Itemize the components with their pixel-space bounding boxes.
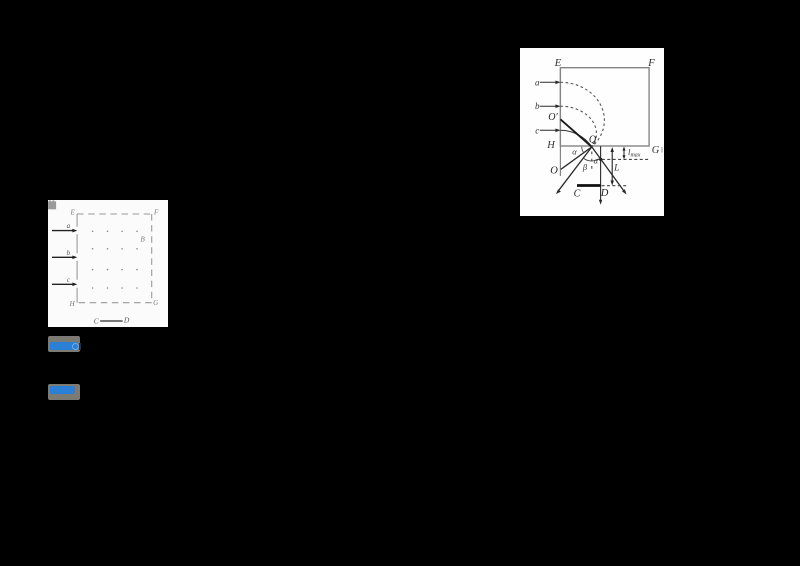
svg-text:α: α — [572, 146, 577, 156]
thick plate CD — [577, 184, 601, 187]
svg-text:G: G — [153, 298, 158, 306]
l_max dimension double arrow — [623, 148, 625, 157]
svg-text:c: c — [535, 125, 539, 135]
svg-text:O′: O′ — [548, 112, 558, 123]
svg-text:c: c — [67, 275, 71, 283]
dashed field boundary EFGH: top edge — [77, 213, 152, 215]
radius line QO — [561, 147, 592, 169]
dashed field boundary: bottom edge — [77, 301, 152, 303]
tick right of G — [661, 147, 663, 152]
svg-text:F: F — [153, 208, 159, 216]
svg-text:E: E — [69, 208, 75, 216]
answer button 1 (gray box with blue label) — [48, 336, 81, 352]
junction dot on vertical line — [599, 158, 602, 161]
svg-text:H: H — [546, 140, 556, 151]
dashed vertical below Q — [591, 151, 593, 172]
svg-text:α: α — [594, 155, 599, 165]
svg-text:E: E — [554, 57, 562, 69]
dashed trajectory arc of particle a — [560, 82, 604, 147]
exit ray of c (lower-right arrow) — [592, 147, 624, 191]
solid trajectory arc of particle c — [560, 130, 591, 147]
svg-text:G: G — [652, 145, 660, 156]
dashed trajectory arc of particle b — [560, 106, 596, 147]
small gray icon blob — [48, 201, 56, 209]
svg-text:D: D — [123, 315, 130, 324]
dashed field boundary: right edge — [151, 214, 153, 303]
svg-text:H: H — [68, 299, 75, 307]
svg-text:a: a — [67, 222, 71, 230]
svg-text:C: C — [574, 188, 581, 199]
svg-text:Q: Q — [589, 134, 597, 145]
right figure panel (detailed trajectory diagram) — [520, 48, 664, 216]
answer button 2 (gray box with blue label) — [48, 384, 80, 400]
svg-text:O: O — [550, 166, 558, 177]
angle alpha arc at H side — [582, 147, 584, 153]
angle beta/alpha arc below Q — [583, 158, 600, 161]
svg-text:C: C — [93, 316, 99, 325]
svg-text:b: b — [67, 249, 71, 257]
vertical exit line through D with arrow — [600, 146, 602, 200]
field rectangle EFGH — [560, 68, 649, 146]
svg-text:D: D — [600, 188, 609, 199]
svg-text:a: a — [535, 77, 540, 87]
svg-text:B: B — [140, 235, 145, 243]
left edge: solid segments broken at particle entries — [76, 214, 78, 303]
line EH extended below H — [559, 68, 561, 176]
svg-text:b: b — [535, 101, 540, 111]
svg-text:F: F — [647, 57, 655, 69]
svg-text:β: β — [582, 162, 588, 172]
dashed horizontal at l_max depth — [596, 158, 649, 160]
svg-text:L: L — [613, 163, 619, 173]
dashed horizontal at D depth — [602, 185, 627, 187]
left figure panel (thumbnail of field region EFGH) — [48, 200, 169, 327]
L dimension double arrow — [611, 149, 613, 182]
field dots grid — [92, 230, 138, 288]
exit ray of a (lower-left arrow) — [558, 147, 591, 191]
svg-text:max: max — [630, 152, 640, 158]
bold radius line O'Q — [560, 119, 591, 147]
